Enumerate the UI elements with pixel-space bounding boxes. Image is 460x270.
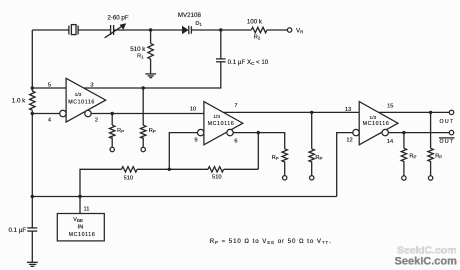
svg-text:1/3: 1/3 bbox=[75, 92, 82, 98]
svg-text:1/3: 1/3 bbox=[213, 114, 220, 120]
wire top rail left segment bbox=[32, 29, 69, 31]
svg-text:7: 7 bbox=[234, 103, 237, 109]
op-amp U2 1/3 MC10116 bbox=[190, 102, 243, 145]
svg-text:RP: RP bbox=[117, 128, 124, 134]
ground below R1 bbox=[145, 74, 156, 78]
wire pin 4 input bbox=[32, 113, 59, 115]
svg-text:2: 2 bbox=[95, 117, 98, 123]
svg-text:R2: R2 bbox=[254, 35, 261, 41]
svg-text:D1: D1 bbox=[195, 21, 202, 27]
resistor R1 510 k bbox=[130, 30, 153, 74]
510 rail bbox=[80, 169, 122, 196]
svg-text:RP: RP bbox=[409, 153, 416, 159]
wire capacitor down and left to pin 3 output bbox=[84, 62, 221, 88]
ground (bottom left) bbox=[27, 262, 38, 266]
wire R2 to VR terminal bbox=[267, 29, 287, 31]
svg-text:4: 4 bbox=[48, 117, 51, 123]
svg-text:1.0 k: 1.0 k bbox=[12, 98, 26, 105]
svg-text:MC10116: MC10116 bbox=[69, 232, 96, 238]
note RP value bbox=[210, 238, 332, 245]
svg-text:OUT: OUT bbox=[440, 139, 455, 145]
svg-text:510 k: 510 k bbox=[130, 46, 146, 53]
crystal bbox=[69, 25, 78, 35]
resistor Rp (from pin 15 line) bbox=[428, 112, 442, 180]
junction node pin5 tee bbox=[31, 86, 34, 89]
svg-text:MV2108: MV2108 bbox=[178, 12, 202, 19]
svg-text:VR: VR bbox=[296, 27, 303, 34]
svg-text:MC10116: MC10116 bbox=[363, 121, 390, 127]
junction node pin4 tee bbox=[31, 112, 34, 115]
svg-text:13: 13 bbox=[345, 107, 351, 113]
junction node pin6 feedback tee bbox=[257, 131, 260, 134]
svg-text:11: 11 bbox=[84, 207, 90, 213]
terminal OUT-bar bbox=[439, 130, 455, 144]
wire VBB box stub pin 11 bbox=[80, 197, 89, 214]
capacitor 0.1 uF (VBB bypass) bbox=[9, 227, 38, 234]
svg-text:R1: R1 bbox=[137, 54, 144, 60]
svg-text:IN: IN bbox=[78, 224, 84, 230]
resistor R2 100 k bbox=[247, 19, 267, 41]
svg-text:6: 6 bbox=[234, 138, 237, 144]
wire pin 5 input bbox=[32, 87, 66, 89]
wire pin 12 input from VBB rail bbox=[337, 133, 353, 197]
svg-text:100 k: 100 k bbox=[247, 19, 263, 26]
resistor Rp (from pin 7 line) bbox=[309, 112, 323, 180]
junction node left rail / VBB rail bbox=[31, 195, 34, 198]
svg-text:0.1 µF: 0.1 µF bbox=[9, 227, 27, 234]
wire pin 7 output to pin 13 input bbox=[223, 111, 359, 113]
svg-text:15: 15 bbox=[387, 103, 393, 109]
resistor 510 (left) bbox=[122, 167, 138, 182]
svg-text:RP = 510 Ω to VEE or 50 Ω to V: RP = 510 Ω to VEE or 50 Ω to VTT. bbox=[210, 238, 332, 245]
svg-text:510: 510 bbox=[124, 176, 134, 182]
resistor 510 (right) bbox=[208, 167, 224, 181]
wire diode to R2 bbox=[191, 29, 251, 31]
svg-text:9: 9 bbox=[194, 137, 197, 143]
svg-text:OUT: OUT bbox=[440, 119, 455, 125]
junction node VBB box tee bbox=[78, 195, 81, 198]
svg-text:2-60 pF: 2-60 pF bbox=[107, 14, 129, 21]
resistor Rp (from pin 3) bbox=[141, 88, 156, 152]
op-amp U3 1/3 MC10116 bbox=[345, 102, 398, 145]
wire crystal to varicap bbox=[78, 29, 111, 31]
wire 510 rail middle bbox=[137, 168, 208, 170]
svg-text:10: 10 bbox=[190, 106, 196, 112]
wire cap to ground bbox=[31, 231, 33, 262]
svg-text:RP: RP bbox=[315, 155, 322, 161]
junction node R1 top bbox=[149, 28, 152, 31]
svg-text:14: 14 bbox=[387, 139, 393, 145]
svg-text:5: 5 bbox=[48, 82, 51, 88]
wire left rail middle bbox=[31, 110, 33, 228]
junction node Rp drop on pin15 line bbox=[429, 111, 432, 114]
wire pin 9 input bbox=[169, 133, 197, 170]
svg-text:VBB: VBB bbox=[73, 217, 83, 223]
resistor Rp (from pin 2) bbox=[109, 114, 124, 152]
watermark SeekIC.com bbox=[395, 245, 458, 268]
wire pin 15 output to OUT bbox=[379, 111, 450, 113]
op-amp U1 1/3 MC10116 bbox=[48, 78, 106, 123]
terminal OUT bbox=[440, 110, 455, 125]
wire pin 2 output to pin 10 input bbox=[91, 113, 204, 115]
junction node Rp drop on pin2 line bbox=[111, 112, 114, 115]
svg-text:MC10116: MC10116 bbox=[68, 100, 95, 106]
variable capacitor 2-60 pF bbox=[105, 14, 129, 38]
junction node Rp drop on pin14 line bbox=[402, 131, 405, 134]
junction node at D1 cathode / C feed bbox=[219, 28, 222, 31]
wire junction down to coupling capacitor bbox=[220, 30, 222, 59]
wire left rail top bbox=[31, 30, 33, 91]
VBB IN MC10116 box bbox=[57, 214, 104, 241]
wire pin 14 output to OUT-bar bbox=[388, 132, 449, 134]
VBB rail bbox=[32, 196, 336, 198]
junction node Rp drop on pin3 line bbox=[142, 86, 145, 89]
wire pin 6 output bbox=[233, 133, 285, 149]
wire 510 rail right end bbox=[224, 168, 259, 170]
svg-text:510: 510 bbox=[212, 175, 222, 181]
terminal VR bbox=[287, 27, 303, 34]
svg-text:12: 12 bbox=[346, 137, 352, 143]
junction node Rp drop on pin7 line bbox=[310, 111, 313, 114]
svg-text:0.1 µF XC < 10: 0.1 µF XC < 10 bbox=[228, 59, 269, 66]
wire pin6 junction down to 510 rail bbox=[257, 133, 259, 170]
resistor Rp (from pin 14 line) bbox=[401, 133, 416, 181]
capacitor 0.1 uF XC<10 bbox=[216, 59, 269, 66]
svg-text:RP: RP bbox=[149, 128, 156, 134]
junction node pin9 tee on 510 rail bbox=[168, 168, 171, 171]
svg-text:RP: RP bbox=[272, 155, 279, 161]
svg-text:RP: RP bbox=[435, 153, 442, 159]
resistor 1.0 k bbox=[12, 91, 35, 110]
svg-text:MC10116: MC10116 bbox=[208, 121, 235, 127]
wire varicap to diode bbox=[114, 29, 182, 31]
svg-text:3: 3 bbox=[90, 82, 93, 88]
svg-text:SeekIC.com: SeekIC.com bbox=[395, 255, 458, 267]
varactor diode D1 MV2108 bbox=[178, 12, 203, 34]
resistor Rp (from pin 6) bbox=[272, 149, 288, 180]
